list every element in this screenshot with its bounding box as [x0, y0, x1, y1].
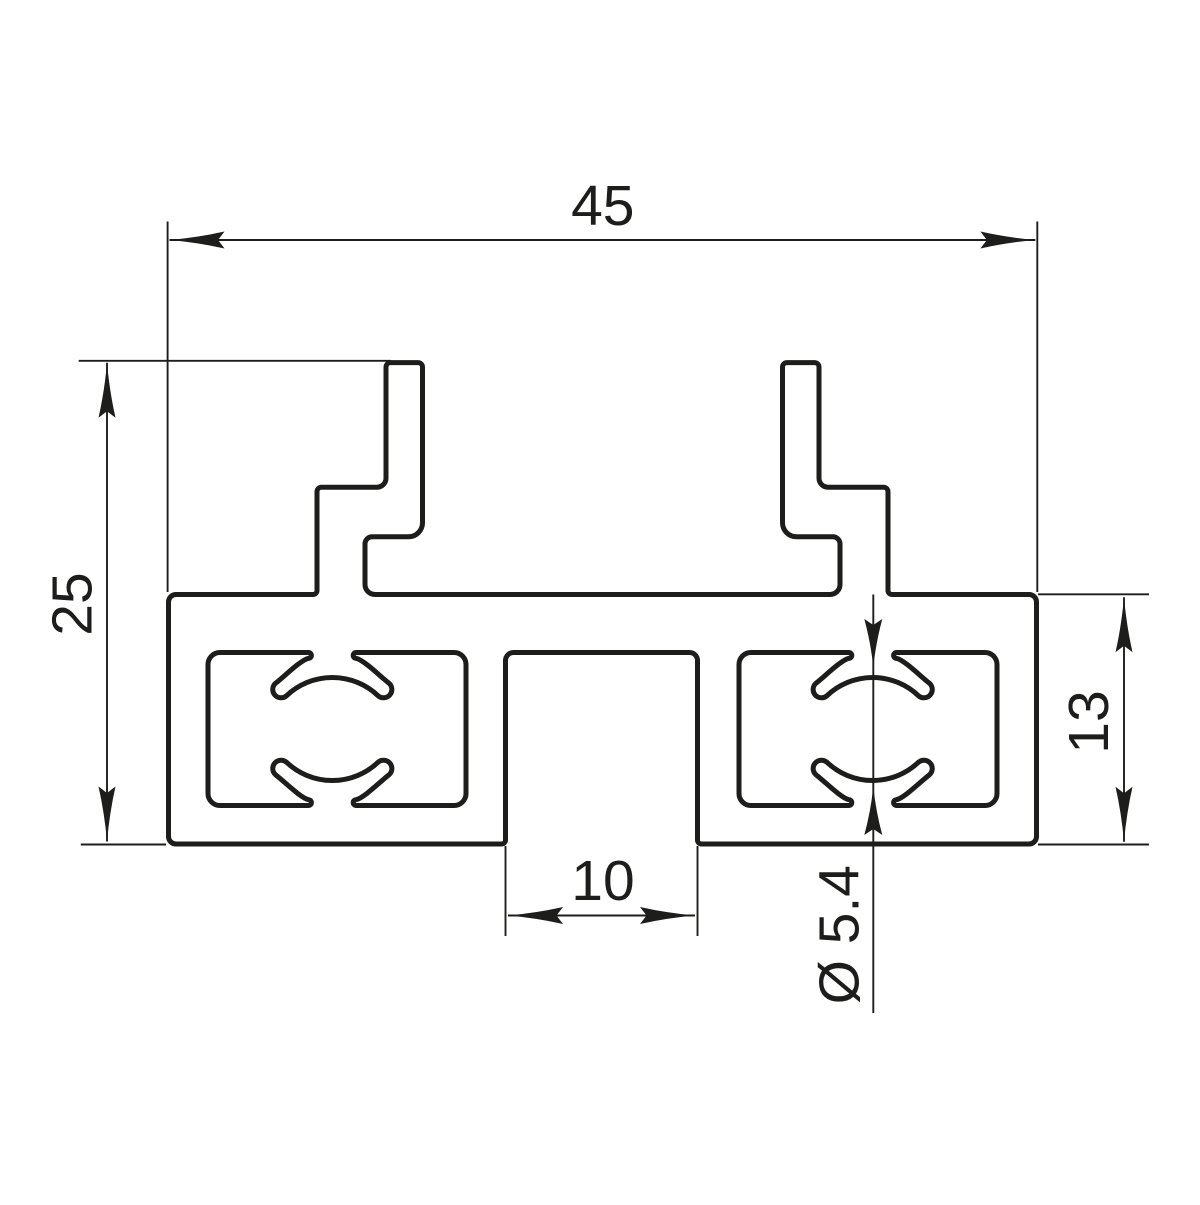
dimension line diameter 5.4 — [872, 595, 874, 1014]
dimension line 25 — [106, 363, 108, 842]
svg-text:10: 10 — [571, 849, 634, 913]
extension line bottom of dim 13 — [1038, 844, 1149, 846]
svg-text:45: 45 — [571, 174, 634, 238]
extension line top of dim 25 — [79, 360, 391, 362]
extension line bottom of dim 25 — [81, 844, 166, 846]
svg-text:25: 25 — [40, 572, 104, 635]
svg-text:Ø 5.4: Ø 5.4 — [808, 865, 872, 1004]
extension line top of dim 13 — [1038, 593, 1149, 595]
aluminium profile outline — [169, 363, 1037, 844]
dimension line 13 — [1123, 597, 1125, 841]
extension line right of dim 45 — [1036, 222, 1038, 593]
dimension line 45 — [170, 239, 1036, 241]
extension line left of dim 10 — [505, 846, 507, 936]
svg-text:13: 13 — [1057, 690, 1121, 753]
left cavity with screw boss claws — [208, 653, 466, 806]
dimension line 10 — [508, 915, 695, 917]
extension line left of dim 45 — [167, 222, 169, 593]
right cavity with screw boss claws — [739, 653, 997, 806]
extension line right of dim 10 — [697, 846, 699, 936]
